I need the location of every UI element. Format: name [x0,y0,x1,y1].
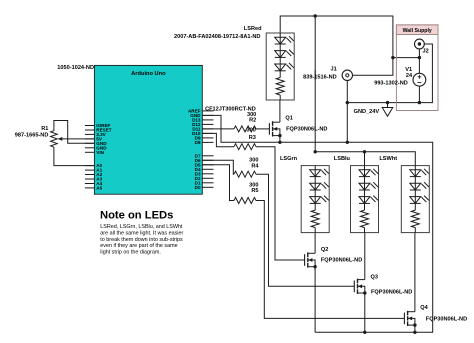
wire Q1 source to ground bus [279,136,281,143]
svg-text:R4: R4 [251,163,259,169]
wire Q3 drain to LSBlu [364,233,366,280]
svg-text:light strip on the diagram.: light strip on the diagram. [100,249,161,255]
svg-text:1050-1024-ND: 1050-1024-ND [57,65,94,71]
svg-text:24: 24 [406,73,413,79]
resistor R5 labels 300 [249,182,258,194]
wall supply group box [396,25,438,111]
svg-text:LSRed, LSGrn, LSBlu, and LSWht: LSRed, LSGrn, LSBlu, and LSWht [100,224,183,230]
junction node rail to J2 branch [391,56,394,59]
svg-text:A5: A5 [96,186,102,191]
svg-text:Note on LEDs: Note on LEDs [100,209,173,221]
svg-text:Q3: Q3 [371,275,378,281]
wire J2 to V1 [418,49,420,73]
svg-text:LSBlu: LSBlu [334,156,351,162]
svg-text:Q4: Q4 [420,305,428,311]
wire R1 bottom to arduino A0 pin [54,147,95,166]
resistor R4 labels 300 [249,158,259,170]
wire +24V top rail [280,16,419,152]
junction node gnd bus to GND_24V [346,141,349,144]
wire Q3 source to bottom ground bus [364,293,366,332]
svg-text:VIN: VIN [96,150,104,155]
junction node J1 sleeve [346,101,349,104]
svg-text:FQP30N06L-ND: FQP30N06L-ND [371,289,412,295]
junction node on rail above LSGrn [314,14,317,17]
svg-text:LSGrn: LSGrn [280,156,298,162]
ground GND_24V symbol [382,103,393,117]
transistor Q1 [269,121,281,137]
R1 labels 987-1665-ND [15,126,49,138]
svg-text:to break them down into sub-st: to break them down into sub-strips [100,237,183,243]
wire GND_24V rail [347,44,432,142]
J1 labels 839-1516-ND [303,67,337,81]
LED strip LSGrn [301,166,329,233]
junction node gnd at V1 minus [418,101,421,104]
junction node feed at LSBlu [363,150,366,153]
svg-text:J2: J2 [423,48,429,54]
svg-text:2007-AB-FA02408-19712-8A1-ND: 2007-AB-FA02408-19712-8A1-ND [174,34,260,40]
connector J2 [415,39,425,49]
wire crossing over J1 label [314,70,316,80]
svg-text:R2: R2 [249,118,256,124]
svg-text:993-1302-ND: 993-1302-ND [374,81,408,87]
wire D5 to R5 to Q4 gate [202,165,404,319]
wire Q2 source to bottom ground bus [314,267,316,333]
Q4 labels FQP30N06L-ND [420,305,467,322]
junction node gnd symbol stem [386,101,389,104]
resistor R1 potentiometer [51,131,95,147]
svg-text:FQP30N06L-ND: FQP30N06L-ND [321,258,362,264]
arduino uno U1 block [94,65,202,194]
svg-text:R1: R1 [41,126,48,132]
wire D11 to R2 to Q1 gate [202,126,269,132]
transistor Q4 [404,311,416,327]
wire R1 top to arduino GND pin [54,121,95,144]
LED strip LSWht [401,166,429,233]
Q2 labels FQP30N06L-ND [321,247,362,264]
wire ground bus from arduino GND pin [202,115,432,332]
V1 labels 24 993-1302-ND [374,67,413,87]
voltage source V1 24V [413,73,426,102]
svg-text:R5: R5 [251,188,258,194]
svg-text:Q1: Q1 [285,115,292,121]
svg-text:GND_24V: GND_24V [354,109,380,115]
svg-text:V1: V1 [405,67,412,73]
wire D6 to R4 to Q3 gate [202,160,354,286]
junction node J2 stem [418,56,421,59]
svg-text:Q2: Q2 [321,247,328,253]
svg-text:300: 300 [247,128,256,134]
svg-text:987-1665-ND: 987-1665-ND [15,133,49,139]
LED strip LSRed [266,33,294,100]
resistor R2 labels 300 [247,112,256,124]
svg-text:LSRed: LSRed [244,26,262,32]
junction node Q1 source on ground bus [278,141,281,144]
connector J1 [342,70,352,80]
svg-text:R3: R3 [249,135,256,141]
svg-text:J1: J1 [330,67,336,73]
svg-text:D0: D0 [195,185,201,190]
svg-text:FQP30N06L-ND: FQP30N06L-ND [426,316,467,322]
Q3 labels FQP30N06L-ND [371,275,413,296]
svg-text:839-1516-ND: 839-1516-ND [303,74,337,80]
wire Q2 drain to LSGrn [314,233,316,254]
transistor Q3 [354,279,366,295]
svg-text:even if they are part of the s: even if they are part of the same [100,243,177,249]
note body text [100,224,183,255]
arduino right pin stubs and pin labels [188,109,214,190]
wire Q4 drain to LSWht [414,233,416,312]
svg-text:CF12JT300RCT-ND: CF12JT300RCT-ND [205,106,256,112]
wire J1 sleeve to gnd rail [346,81,348,103]
Q1 labels FQP30N06L-ND [285,115,327,132]
junction node feed at LSGrn [314,150,317,153]
transistor Q2 [305,252,317,268]
junction node Q3 source on bus [363,331,366,334]
wire D10 to R3 to Q2 gate [202,133,304,260]
svg-text:Wall Supply: Wall Supply [403,28,432,34]
svg-text:are all the same light. It was: are all the same light. It was easier [100,230,183,236]
wire Q4 source to bottom ground bus [414,325,416,332]
arduino left pin stubs and pin labels [85,123,112,190]
svg-text:Arduino Uno: Arduino Uno [131,71,166,77]
wire LED strip feed line [315,152,415,166]
svg-text:LSWht: LSWht [379,156,397,162]
svg-text:D8: D8 [195,140,201,145]
junction node Q4 source on bus [413,331,416,334]
svg-text:FQP30N06L-ND: FQP30N06L-ND [286,127,327,133]
resistor R3 labels 300 [247,128,256,142]
LED strip LSBlu [351,166,379,233]
wire Q1 drain to LSRed [279,100,281,122]
